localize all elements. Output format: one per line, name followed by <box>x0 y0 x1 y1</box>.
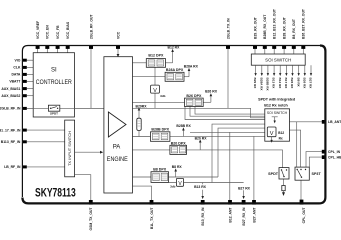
B29 RX filter <box>136 104 148 130</box>
pin LB_RF_IN <box>23 165 27 168</box>
svg-text:GSM_TX_OUT: GSM_TX_OUT <box>89 207 93 231</box>
svg-text:B28_RX_OUT: B28_RX_OUT <box>282 16 286 39</box>
svg-text:VCC: VCC <box>116 31 120 39</box>
pin B27_ANT <box>252 200 256 205</box>
svg-text:PA: PA <box>113 145 121 151</box>
svg-text:B12 RX: B12 RX <box>168 46 181 50</box>
svg-text:SI: SI <box>51 68 57 74</box>
svg-text:B12_B13_RX_OUT: B12_B13_RX_OUT <box>273 8 277 39</box>
pin B1_17_RF_IN <box>23 129 27 132</box>
svg-text:CPL_OUT: CPL_OUT <box>302 207 306 224</box>
svg-text:B26 RX: B26 RX <box>302 78 306 90</box>
pin B27_RX_IN <box>242 200 246 205</box>
wire B12 DPX to B12 RX arrow <box>172 52 174 63</box>
wire B28A DPX to B28A RX arrow <box>188 71 190 77</box>
pin B26_B27_RX_OUT <box>301 45 305 49</box>
svg-text:3db: 3db <box>160 94 166 98</box>
wire B113_RF_IN to TX input switch <box>27 141 65 143</box>
pin 2GLB_RF_IN <box>23 107 27 110</box>
svg-text:SPDT: SPDT <box>50 112 58 116</box>
duplexer B20 DPX <box>170 141 187 154</box>
SOI switch pin stub B29_RX_OUT <box>254 49 256 55</box>
svg-text:3db: 3db <box>170 184 176 188</box>
svg-text:B27_ANT: B27_ANT <box>252 207 256 223</box>
BLOCKS <box>27 53 322 193</box>
pin VCC <box>116 45 120 49</box>
wire 2GLB_RF_OUT down to 2G LB net <box>90 49 92 109</box>
pin CPL_IN <box>322 150 326 154</box>
svg-text:2GLB_RF_OUT: 2GLB_RF_OUT <box>89 14 93 39</box>
svg-text:B1_17_RF_IN: B1_17_RF_IN <box>0 128 21 132</box>
pin LB_ANT <box>322 120 326 124</box>
svg-text:2GLB_RF_IN: 2GLB_RF_IN <box>0 107 21 111</box>
wire AUX_BIAS1 to SI controller <box>27 88 33 90</box>
svg-text:B13 RX: B13 RX <box>272 78 276 90</box>
svg-text:B12 DPX: B12 DPX <box>148 54 164 58</box>
pin VBATT <box>23 80 27 83</box>
notch filter V2 <box>170 178 183 188</box>
wire PA to B20 DPX <box>133 149 170 151</box>
wire VCC_BIAS stub <box>67 49 69 54</box>
pin VCC_BIAS <box>66 45 70 49</box>
svg-text:B17 RX: B17 RX <box>284 78 288 90</box>
SPDT switch (coupler termination) <box>268 168 289 179</box>
svg-text:AUX_BIAS1: AUX_BIAS1 <box>1 87 20 91</box>
wire B20 DPX to B20 RX arrow <box>199 142 201 150</box>
pin B113_RF_IN <box>23 140 27 143</box>
svg-text:LB_RF_IN: LB_RF_IN <box>4 165 21 169</box>
svg-text:V: V <box>270 131 274 137</box>
svg-text:LB_ANT: LB_ANT <box>328 120 341 124</box>
svg-text:B20 DPX: B20 DPX <box>171 141 187 145</box>
svg-text:B12_ANT: B12_ANT <box>228 207 232 223</box>
svg-text:CPL_IN: CPL_IN <box>328 150 341 154</box>
wire PA to B28B DPX <box>133 136 151 138</box>
wire tee down to B27_ANT pin <box>253 136 255 200</box>
duplexer B28A DPX <box>165 68 184 81</box>
svg-text:B28A RX: B28A RX <box>259 78 263 92</box>
svg-text:B13 RX: B13 RX <box>194 185 207 189</box>
wire AUX_BIAS2 to SI controller <box>27 95 33 97</box>
duplexer B26 DPX <box>185 94 204 107</box>
pin B13_RX_IN <box>201 200 205 205</box>
svg-text:CPL_HB: CPL_HB <box>328 155 341 159</box>
wire CLK to SI controller <box>27 66 33 68</box>
pin CLK <box>23 66 27 69</box>
svg-text:SP3T: SP3T <box>312 172 322 176</box>
svg-text:B29RX: B29RX <box>136 104 148 108</box>
wire B27 RX down arrow to pin <box>243 190 245 196</box>
pin CPL_HB <box>322 155 326 159</box>
wire PA to B8 DPX <box>133 176 152 178</box>
wire B12 DPX to RX arrow junction <box>166 62 173 64</box>
wire GSM_TX_OUT route from TX input switch <box>75 175 91 200</box>
wire VBATT to SI controller <box>27 80 33 82</box>
termination resistor <box>282 186 285 191</box>
svg-text:SOI SWITCH: SOI SWITCH <box>267 111 288 115</box>
PINS <box>23 45 326 204</box>
svg-text:CLK: CLK <box>13 66 21 70</box>
wire SPDT down to termination <box>283 179 285 186</box>
SI CONTROLLER block <box>27 53 104 117</box>
svg-text:B28B DPX: B28B DPX <box>151 128 169 132</box>
duplexer B12 DPX <box>146 54 165 68</box>
wire PA to B12 DPX <box>133 62 147 64</box>
pin VCC_EN <box>45 45 49 49</box>
SPDT with integrated B12 Rx notch block <box>258 98 296 143</box>
wire VCC_EN stub <box>46 49 48 54</box>
SOI switch RX arrow labels <box>253 78 312 92</box>
wire B8 to B13/B27 RX through V2 notch <box>169 182 244 184</box>
termination ground arrow <box>283 191 285 193</box>
pin VCC_VREF <box>36 45 40 49</box>
wire DATA to SI controller <box>27 73 33 75</box>
pin B28A_RX_OUT <box>282 45 286 49</box>
svg-text:SKY78113: SKY78113 <box>35 185 76 199</box>
pin 2GLB_RF_OUT <box>89 45 93 49</box>
svg-text:B29 RX: B29 RX <box>253 78 257 90</box>
svg-text:DATA: DATA <box>11 73 20 77</box>
module outline SKY78113 <box>22 46 325 204</box>
wire CPL_HB to SP3T <box>309 157 322 167</box>
svg-text:ENGINE: ENGINE <box>107 157 128 163</box>
SOI switch RX output arrows <box>254 65 312 76</box>
wire B12 DPX through V1 notch down to bundle <box>154 67 156 108</box>
svg-text:B8 RX: B8 RX <box>172 165 183 169</box>
wire corner up to notch block <box>212 124 265 182</box>
svg-text:VCC_FB: VCC_FB <box>56 25 60 39</box>
pin B1L_TX_OUT <box>150 200 154 205</box>
pin B28B_RX_OUT <box>263 45 267 49</box>
wire B29RX filter down to B28B net <box>138 131 140 137</box>
svg-text:V: V <box>153 88 157 94</box>
pin CPL_OUT <box>300 200 304 205</box>
svg-text:TX INPUT SWITCH: TX INPUT SWITCH <box>67 131 72 166</box>
wire VCC_FB stub <box>57 49 59 54</box>
SOI switch pin stub B28A_RX_OUT <box>283 49 285 55</box>
svg-text:VBATT: VBATT <box>9 80 21 84</box>
svg-text:SOI SWITCH: SOI SWITCH <box>265 58 291 63</box>
wire B8 DPX antenna net up to notch block <box>169 128 265 177</box>
svg-text:B8_RX_OUT: B8_RX_OUT <box>292 18 296 39</box>
wire B20 DPX antenna net to SPDT <box>187 150 283 168</box>
svg-text:VCC_EN: VCC_EN <box>46 25 50 39</box>
pin B8_RX_OUT <box>292 45 296 49</box>
pin AUX_BIAS2 <box>23 94 27 97</box>
svg-text:B27 RX: B27 RX <box>238 186 251 190</box>
svg-text:B29_RX_OUT: B29_RX_OUT <box>253 16 257 39</box>
wire PA to B1L_TX_OUT pin <box>133 186 152 200</box>
wire LB antenna line from notch block to LB_ANT pin <box>290 121 323 123</box>
wire tee down to SP3T input 1 <box>296 122 298 167</box>
svg-text:B27 RX: B27 RX <box>309 78 313 90</box>
svg-text:SPDT: SPDT <box>268 172 279 176</box>
svg-text:Rx: Rx <box>279 137 283 141</box>
pin B29_RX_OUT <box>253 45 257 49</box>
svg-text:B28A DPX: B28A DPX <box>166 68 184 72</box>
wire PA to B26 DPX <box>133 101 185 103</box>
SP3T switch (coupler select) <box>295 167 321 180</box>
svg-text:B26 DPX: B26 DPX <box>186 94 202 98</box>
SOI switch pin stub B12_B13_RX_OUT <box>273 49 275 55</box>
svg-text:B12 Rx notch: B12 Rx notch <box>264 103 288 107</box>
svg-text:B26_B27_RX_OUT: B26_B27_RX_OUT <box>302 8 306 39</box>
wire B28A DPX to RX arrow junction <box>184 76 189 78</box>
SOI switch pin stub B28B_RX_OUT <box>264 49 266 55</box>
wire 2GLB_TX_IN down to bundle <box>227 49 229 109</box>
svg-text:B113_RF_IN: B113_RF_IN <box>1 140 21 144</box>
pin AUX_BIAS1 <box>23 87 27 90</box>
pin 2GLB_TX_IN <box>226 45 230 49</box>
wire PA to B28A DPX <box>133 76 166 78</box>
svg-text:B8 DPX: B8 DPX <box>153 168 167 172</box>
svg-text:B28B_RX_OUT: B28B_RX_OUT <box>263 14 267 39</box>
wire B28B DPX antenna net to notch block <box>170 135 265 137</box>
TX INPUT SWITCH block <box>65 120 75 177</box>
wire 2GLB RF net across through SPDT and PA to antenna switch <box>27 108 265 118</box>
svg-text:B13_RX_IN: B13_RX_IN <box>201 207 205 226</box>
notch filter V1 <box>151 85 166 98</box>
svg-text:B27_RX_IN: B27_RX_IN <box>242 207 246 226</box>
svg-text:B26 RX: B26 RX <box>205 90 218 94</box>
wire TX input switch to PA (arrow) <box>75 151 101 153</box>
pin GSM_TX_OUT <box>89 200 93 205</box>
wire net to notch block and tee to B12_ANT pin <box>190 132 265 200</box>
wire B26 DPX port C to notch block <box>185 106 265 119</box>
svg-text:B26 RX: B26 RX <box>290 78 294 90</box>
wire B28B DPX to B28B RX arrow <box>182 130 184 137</box>
wire CPL_IN to SP3T <box>306 152 322 168</box>
wire B29RX filter up arrow <box>138 110 140 118</box>
svg-text:VCC_BIAS: VCC_BIAS <box>66 21 70 39</box>
SOI switch pin stub B8_RX_OUT <box>293 49 295 55</box>
svg-text:CONTROLLER: CONTROLLER <box>36 80 73 86</box>
wire B8 DPX to B8 RX arrow <box>175 171 177 177</box>
svg-text:VIO: VIO <box>15 58 21 62</box>
svg-text:B12: B12 <box>278 131 284 135</box>
svg-text:B28B RX: B28B RX <box>266 78 270 92</box>
wire B26 DPX to B26 RX arrow <box>210 96 212 103</box>
wire 2G LB RF across SI controller <box>27 107 104 109</box>
duplexer B28B DPX <box>151 128 170 142</box>
wire VIO to SI controller <box>27 59 33 61</box>
wire LB_RF_IN to TX input switch <box>27 166 65 168</box>
SPDT switch (2G path) <box>48 105 59 115</box>
svg-text:2GLB_TX_IN: 2GLB_TX_IN <box>226 18 230 39</box>
wire B13 RX down arrow to pin <box>202 183 204 197</box>
svg-text:B12 RX: B12 RX <box>278 78 282 90</box>
svg-text:B8 RX: B8 RX <box>296 78 300 88</box>
svg-text:B1L_TX_OUT: B1L_TX_OUT <box>150 207 154 230</box>
svg-text:B28B RX: B28B RX <box>176 124 191 128</box>
PA ENGINE block <box>104 57 133 193</box>
pin VCC_FB <box>56 45 60 49</box>
svg-text:B20 RX: B20 RX <box>195 136 208 140</box>
SOI switch pin stub B26_B27_RX_OUT <box>302 49 304 55</box>
pin VIO <box>23 59 27 62</box>
wire B1_17_RF_IN to TX input switch <box>27 129 65 131</box>
SOI SWITCH (antenna switch) block <box>251 54 305 65</box>
duplexer B8 DPX <box>151 168 169 183</box>
wire SP3T down to CPL_OUT pin <box>300 180 302 200</box>
wire notch block output to SP3T <box>290 130 301 167</box>
wire VCC_VREF stub <box>37 49 39 54</box>
pin DATA <box>23 73 27 76</box>
svg-text:SPDT with Integrated: SPDT with Integrated <box>258 98 296 102</box>
svg-text:VCC_VREF: VCC_VREF <box>36 21 40 39</box>
wire B26 DPX port B to notch block <box>190 106 265 116</box>
svg-text:B28A RX: B28A RX <box>184 65 199 69</box>
wire VCC into PA (arrow) <box>117 49 119 55</box>
pin B12_ANT <box>228 200 232 205</box>
wire B26 DPX to RX arrow <box>203 101 211 103</box>
wire B26 DPX port A to notch block <box>195 106 265 114</box>
svg-text:AUX_BIAS2: AUX_BIAS2 <box>1 94 20 98</box>
pin B12_B13_RX_OUT <box>272 45 276 49</box>
